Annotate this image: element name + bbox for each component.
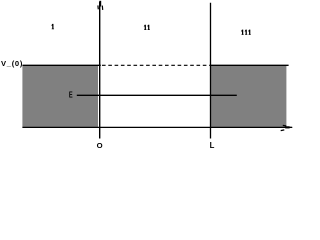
svg-text:V_(0): V_(0) [1, 59, 23, 68]
svg-text:L: L [210, 141, 215, 149]
svg-text:O: O [97, 141, 103, 149]
svg-text:E: E [69, 92, 73, 100]
